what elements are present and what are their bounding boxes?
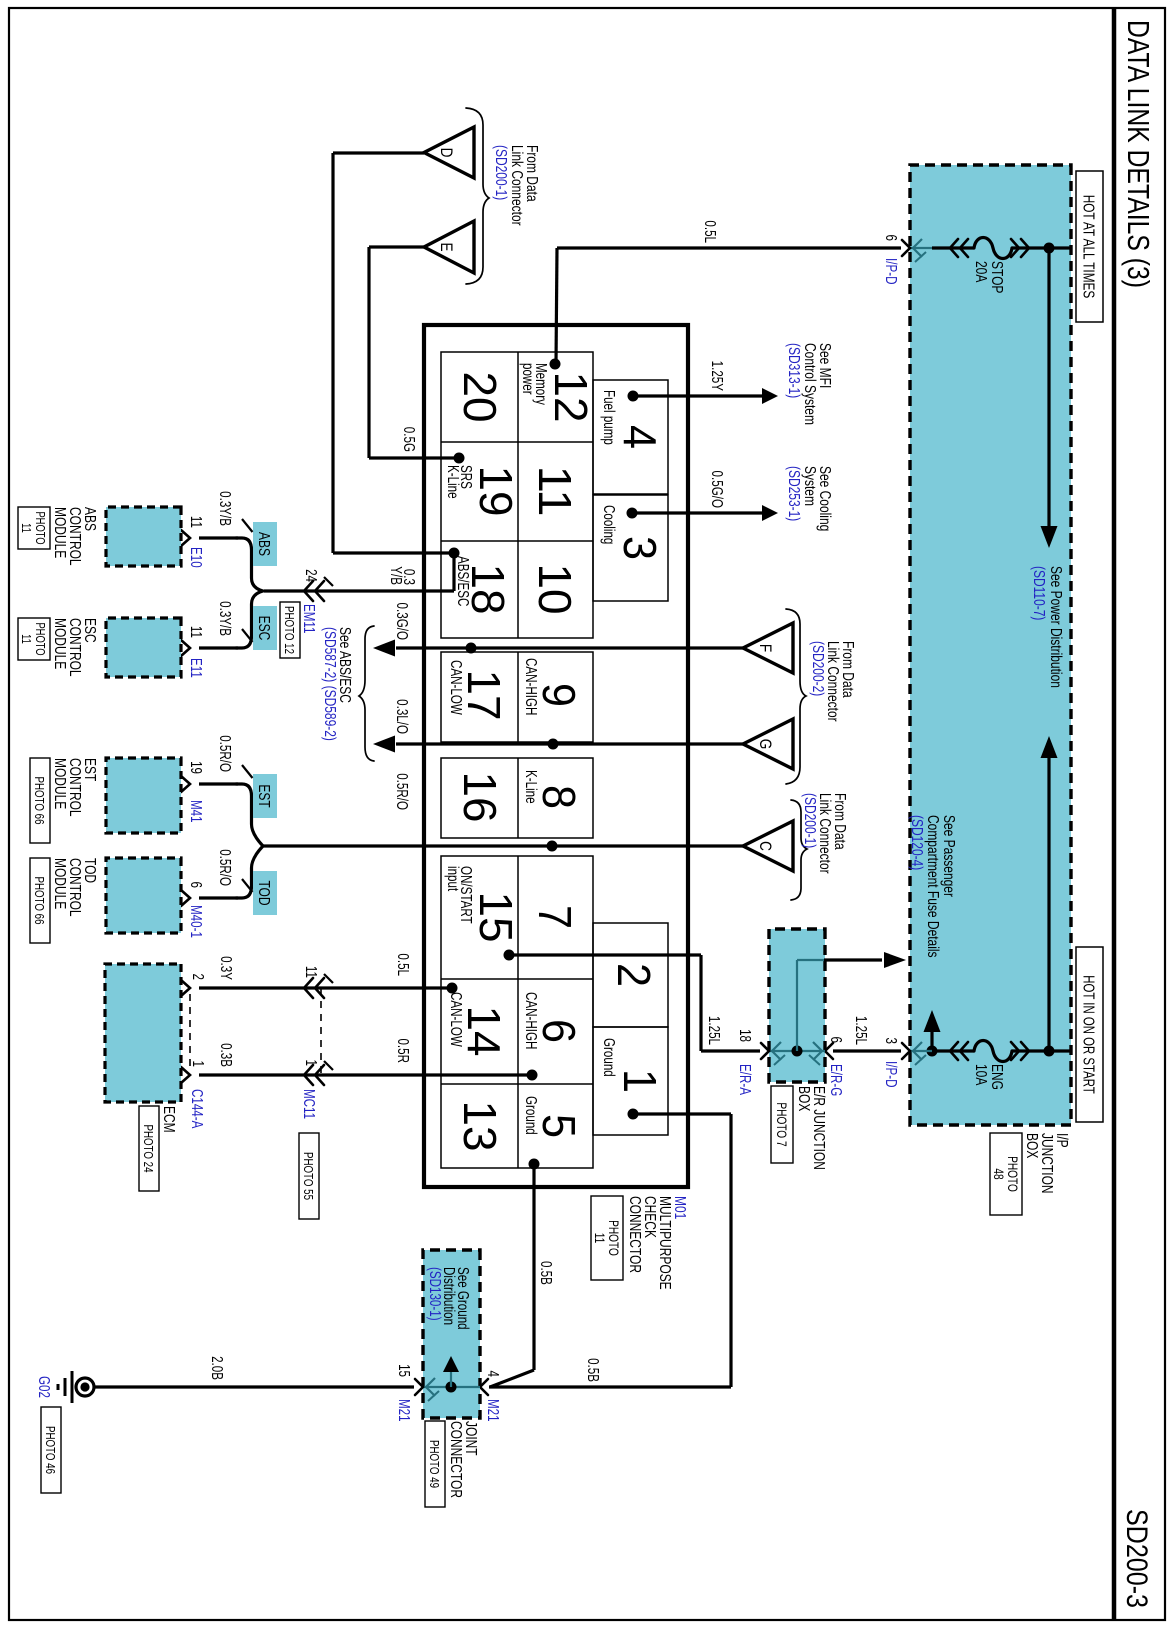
svg-text:E/R-G: E/R-G — [828, 1064, 845, 1096]
svg-text:0.3L/O: 0.3L/O — [394, 699, 411, 734]
brace From Data Link Connector (SD200-2) — [786, 609, 806, 784]
in-line connector EM11 pin 24 — [315, 581, 324, 601]
connector triangle G — [743, 719, 793, 769]
label PHOTO 11 (ABS) — [18, 507, 50, 549]
svg-text:(SD130-1): (SD130-1) — [427, 1267, 444, 1321]
svg-text:CAN-LOW: CAN-LOW — [448, 992, 465, 1047]
node pin 17 — [466, 643, 477, 654]
svg-text:Ground: Ground — [523, 1096, 540, 1135]
svg-text:DATA LINK DETAILS (3): DATA LINK DETAILS (3) — [1121, 20, 1156, 288]
node pin 9 — [548, 739, 559, 750]
wire 1.25Y fuel pump to MFI arrow — [633, 394, 762, 397]
wire hot bus stub to top edge (STOP) — [1049, 246, 1071, 249]
svg-text:See Power Distribution: See Power Distribution — [1048, 566, 1066, 688]
label PHOTO 55 — [299, 1133, 319, 1219]
in-line connector MC11 pin 11 — [315, 978, 324, 998]
svg-text:HOT IN ON OR START: HOT IN ON OR START — [1080, 975, 1098, 1094]
wire 1.25L from E/R-A 18 to pin 15 — [701, 1049, 760, 1052]
svg-text:3: 3 — [883, 1038, 900, 1045]
wire 2.0B to ground G02 — [94, 1385, 414, 1388]
svg-text:Y/B: Y/B — [388, 566, 405, 585]
svg-text:E11: E11 — [188, 658, 205, 678]
svg-text:(SD313-1): (SD313-1) — [786, 343, 804, 398]
node E/R junction — [792, 1046, 803, 1057]
pin 15 chevron M21 — [415, 1379, 423, 1395]
ground G02 — [76, 1378, 94, 1396]
svg-text:11: 11 — [303, 966, 320, 978]
pin 1 C144-A connector — [181, 1067, 190, 1083]
svg-text:G: G — [756, 739, 775, 750]
ABS control module — [106, 507, 181, 566]
node pin 6 — [527, 1070, 538, 1081]
fuse STOP 20A — [1012, 246, 1049, 249]
pin grid block 16/8 — [441, 758, 593, 838]
label PHOTO 66 (EST) — [30, 758, 50, 843]
svg-text:10: 10 — [529, 563, 581, 614]
svg-text:I/P-D: I/P-D — [883, 1061, 900, 1088]
pin 18 chevron E/R-A — [761, 1043, 769, 1059]
svg-text:BOX: BOX — [796, 1086, 814, 1112]
svg-text:K-Line: K-Line — [445, 465, 462, 499]
svg-text:20: 20 — [454, 371, 506, 422]
svg-text:1.25L: 1.25L — [706, 1016, 723, 1045]
pin 19 M41 connector — [181, 776, 190, 792]
svg-text:ABS/ESC: ABS/ESC — [455, 556, 472, 606]
svg-text:0.5L: 0.5L — [702, 220, 719, 243]
svg-text:(SD110-7): (SD110-7) — [1031, 566, 1049, 620]
in-line connector MC11 pin 1 — [315, 1065, 324, 1085]
net label ESC — [253, 606, 277, 650]
node pin 14 — [447, 983, 458, 994]
svg-text:11: 11 — [19, 523, 33, 533]
net label TOD — [253, 871, 277, 915]
wire split to EST and TOD — [236, 784, 263, 898]
svg-text:1: 1 — [303, 1060, 320, 1066]
wire 0.3Y/B to ESC control module — [199, 646, 238, 649]
svg-text:(SD587-2) (SD589-2): (SD587-2) (SD589-2) — [322, 627, 340, 741]
svg-text:2: 2 — [190, 974, 207, 980]
svg-text:0.5B: 0.5B — [585, 1358, 602, 1382]
svg-text:ABS: ABS — [256, 532, 274, 556]
node pin 12 — [550, 359, 561, 370]
svg-text:6: 6 — [533, 1019, 585, 1043]
svg-text:7: 7 — [529, 905, 581, 929]
svg-text:Fuel pump: Fuel pump — [601, 390, 618, 445]
connector triangle E — [424, 221, 474, 273]
wire 0.3G/O triangle F through pin 17 to See ABS/ESC — [396, 646, 743, 649]
svg-text:0.5G: 0.5G — [401, 427, 418, 452]
label PHOTO 46 — [41, 1407, 61, 1493]
svg-text:20A: 20A — [973, 261, 991, 283]
svg-text:0.5B: 0.5B — [538, 1261, 555, 1285]
svg-text:24: 24 — [303, 569, 320, 582]
wire 0.5R/O to EST control module — [199, 782, 238, 785]
svg-text:E: E — [437, 242, 456, 251]
svg-text:15: 15 — [396, 1364, 413, 1377]
svg-text:16: 16 — [454, 771, 506, 822]
title separator rule — [1112, 8, 1117, 1620]
svg-text:(SD253-1): (SD253-1) — [786, 466, 804, 521]
svg-text:6: 6 — [828, 1037, 845, 1044]
wire triangle E to pin 19 (0.5G) — [369, 245, 424, 248]
label PHOTO 7 — [771, 1086, 793, 1163]
node M21 junction — [446, 1382, 457, 1393]
svg-text:MODULE: MODULE — [52, 618, 70, 669]
svg-text:11: 11 — [188, 516, 205, 528]
svg-text:14: 14 — [458, 1005, 510, 1056]
net label EST — [253, 774, 277, 818]
svg-text:1: 1 — [614, 1069, 666, 1093]
svg-text:11: 11 — [19, 634, 33, 644]
svg-text:4: 4 — [485, 1371, 502, 1378]
pin 6 exit chevron I/P-D — [902, 240, 910, 256]
EST control module — [106, 758, 181, 833]
wire triangle D to pin 18 — [333, 151, 424, 154]
pin 3 exit chevron I/P-D — [902, 1043, 910, 1059]
pin 4 chevron M21 — [480, 1379, 488, 1395]
brace See ABS/ESC — [359, 626, 374, 761]
svg-text:CONNECTOR: CONNECTOR — [627, 1196, 645, 1273]
pin cell 3 — [593, 495, 668, 601]
svg-text:0.5R/O: 0.5R/O — [394, 773, 411, 810]
svg-text:6: 6 — [188, 882, 205, 889]
brace (C) — [791, 800, 807, 900]
node pin 19 — [454, 453, 465, 464]
svg-text:MODULE: MODULE — [52, 858, 70, 909]
connector triangle D — [424, 127, 474, 178]
svg-text:MC11: MC11 — [301, 1089, 318, 1119]
svg-text:HOT AT ALL TIMES: HOT AT ALL TIMES — [1080, 195, 1098, 299]
label PHOTO 11 (M01) — [591, 1196, 623, 1280]
svg-text:PHOTO 66: PHOTO 66 — [32, 776, 46, 824]
svg-text:power: power — [520, 363, 537, 395]
svg-text:0.5R/O: 0.5R/O — [217, 849, 234, 886]
svg-text:48: 48 — [991, 1168, 1007, 1180]
svg-text:(SD200-2): (SD200-2) — [810, 641, 828, 696]
node pin 18 — [449, 548, 460, 559]
wire 0.5R/O to TOD control module — [199, 896, 238, 899]
svg-text:3: 3 — [614, 536, 666, 560]
pin 11 E11 connector — [181, 640, 190, 656]
wire branch to passenger fuse details arrow — [930, 1032, 933, 1051]
wire 0.3Y/B to ABS control module — [199, 536, 238, 539]
svg-text:19: 19 — [470, 465, 522, 516]
ESC control module — [106, 618, 181, 677]
svg-text:0.3Y/B: 0.3Y/B — [217, 491, 234, 526]
svg-text:input: input — [445, 866, 462, 891]
wire 0.5R pin 6 CAN-HIGH to MC11 — [199, 1073, 532, 1076]
wire 0.3L/O triangle G through pin 9 — [396, 742, 744, 745]
svg-text:1.25Y: 1.25Y — [709, 361, 726, 391]
arrow see ground distribution — [450, 1362, 452, 1387]
svg-text:PHOTO 24: PHOTO 24 — [141, 1124, 155, 1173]
svg-text:MODULE: MODULE — [52, 758, 70, 809]
svg-text:M21: M21 — [396, 1399, 413, 1422]
wire through M21 — [423, 1386, 480, 1388]
svg-text:2: 2 — [608, 963, 660, 987]
svg-text:(SD200-1): (SD200-1) — [493, 145, 511, 200]
svg-text:1: 1 — [190, 1061, 207, 1067]
svg-text:0.3Y/B: 0.3Y/B — [217, 601, 234, 636]
svg-text:13: 13 — [454, 1100, 506, 1151]
svg-text:0.3B: 0.3B — [218, 1043, 235, 1067]
label PHOTO 24 — [139, 1106, 159, 1191]
pin cell 4 — [593, 380, 668, 494]
wire bus from ENG fuse junction — [1047, 756, 1050, 1051]
svg-text:8: 8 — [533, 785, 585, 809]
label PHOTO 66 (TOD) — [30, 858, 50, 943]
svg-text:PHOTO: PHOTO — [33, 622, 47, 655]
svg-text:CAN-HIGH: CAN-HIGH — [523, 992, 540, 1049]
node junction ENG fuse — [1044, 1046, 1055, 1057]
wire through E/R junction box — [769, 1050, 825, 1052]
svg-text:M21: M21 — [485, 1399, 502, 1422]
svg-text:G02: G02 — [36, 1376, 53, 1398]
pin 6 chevron E/R-G — [825, 1043, 833, 1059]
I/P junction box (shaded) — [910, 165, 1071, 1125]
node junction ENG branch — [927, 1046, 938, 1057]
svg-text:11: 11 — [529, 465, 581, 516]
svg-text:11: 11 — [188, 626, 205, 638]
svg-text:BOX: BOX — [1024, 1133, 1042, 1159]
svg-text:5: 5 — [533, 1114, 585, 1138]
wire 0.5G/O cooling to arrow — [632, 511, 762, 514]
ECM module — [105, 964, 181, 1102]
connector triangle C — [743, 821, 793, 871]
wire 0.5B pin 5 ground to M21 pin 4 — [532, 1164, 535, 1370]
wire 1.25L from I/P-D 3 to E/R-G 6 — [833, 1049, 901, 1052]
svg-text:10A: 10A — [973, 1064, 991, 1086]
svg-text:ESC: ESC — [256, 616, 274, 641]
svg-text:15: 15 — [470, 891, 522, 942]
svg-text:1.25L: 1.25L — [853, 1016, 870, 1045]
joint connector M21 (shaded) — [423, 1250, 480, 1418]
TOD control module — [106, 858, 181, 933]
svg-text:19: 19 — [188, 761, 205, 774]
wire 0.5R/O triangle C through pin 8 to EST TOD split — [262, 844, 744, 847]
svg-text:PHOTO 12: PHOTO 12 — [282, 606, 296, 654]
svg-text:F: F — [756, 644, 775, 652]
node pin 1 — [628, 1109, 639, 1120]
node junction STOP fuse — [1044, 243, 1055, 254]
pin 2 ECM connector — [181, 980, 190, 996]
pin grid block 20-18/12-10 — [441, 352, 593, 638]
E/R junction box (shaded) — [769, 929, 825, 1082]
connector triangle F — [743, 623, 793, 673]
wire 0.5L pin 14 CAN-LOW to MC11 — [199, 986, 452, 989]
wire bus to power distribution arrow — [1047, 248, 1050, 528]
svg-text:I/P-D: I/P-D — [883, 258, 900, 285]
wire hot bus stub to top edge (ENG) — [1049, 1049, 1071, 1052]
pin grid block 17/9 — [441, 652, 593, 742]
svg-text:E10: E10 — [188, 547, 205, 568]
brace From Data Link Connector (SD200-1) — [466, 108, 489, 284]
node pin 15 — [504, 950, 515, 961]
label HOT IN ON OR START — [1076, 947, 1103, 1122]
svg-text:(SD120-4): (SD120-4) — [909, 815, 927, 870]
svg-text:EST: EST — [256, 784, 274, 808]
svg-text:SD200-3: SD200-3 — [1120, 1509, 1153, 1608]
label HOT AT ALL TIMES — [1076, 171, 1103, 322]
svg-text:C144-A: C144-A — [189, 1089, 206, 1129]
fuse ENG 10A — [1012, 1049, 1049, 1052]
svg-text:PHOTO 46: PHOTO 46 — [43, 1426, 57, 1474]
label PHOTO 49 — [425, 1421, 445, 1507]
svg-text:4: 4 — [614, 425, 666, 449]
svg-text:K-Line: K-Line — [523, 770, 540, 804]
pin cell 1 — [593, 1027, 668, 1135]
svg-text:0.5R: 0.5R — [395, 1038, 412, 1063]
pin cell 2 — [593, 923, 668, 1027]
svg-text:D: D — [437, 148, 456, 158]
svg-text:PHOTO 66: PHOTO 66 — [32, 876, 46, 924]
svg-text:0.5L: 0.5L — [395, 953, 412, 976]
svg-text:Ground: Ground — [601, 1038, 618, 1077]
node pin 8 — [547, 841, 558, 852]
svg-text:11: 11 — [592, 1233, 608, 1244]
svg-text:6: 6 — [883, 235, 900, 242]
svg-text:2.0B: 2.0B — [209, 1356, 226, 1380]
pin 11 E10 connector — [181, 530, 190, 546]
svg-text:(SD200-1): (SD200-1) — [802, 793, 820, 848]
label PHOTO 11 (ESC) — [18, 618, 50, 660]
node pin 4 — [628, 391, 639, 402]
svg-text:17: 17 — [458, 669, 510, 720]
svg-text:EM11: EM11 — [301, 604, 318, 633]
wire E/R branch to I/P junction box — [796, 960, 798, 1051]
svg-text:Cooling: Cooling — [601, 505, 618, 544]
svg-text:CONNECTOR: CONNECTOR — [448, 1421, 466, 1498]
connector M01 outer box — [424, 325, 688, 1187]
svg-text:C: C — [756, 841, 775, 851]
svg-text:CAN-HIGH: CAN-HIGH — [523, 658, 540, 715]
svg-text:TOD: TOD — [256, 880, 274, 905]
wire 0.5L from I/P-D 6 to pin 12 memory power — [557, 246, 901, 249]
label PHOTO 48 — [990, 1133, 1022, 1215]
svg-text:PHOTO 49: PHOTO 49 — [427, 1440, 441, 1488]
svg-text:PHOTO 55: PHOTO 55 — [301, 1152, 315, 1200]
svg-text:0.5G/O: 0.5G/O — [709, 471, 726, 508]
wire split to ABS and ESC — [236, 538, 263, 648]
svg-text:E/R-A: E/R-A — [737, 1064, 754, 1096]
svg-text:0.5R/O: 0.5R/O — [217, 735, 234, 772]
svg-text:9: 9 — [533, 683, 585, 707]
svg-text:0.3G/O: 0.3G/O — [394, 603, 411, 640]
wire 0.3Y/B pin 18 hook to EM11 — [452, 553, 455, 591]
svg-text:0.3Y: 0.3Y — [218, 956, 235, 980]
node pin 5 — [529, 1159, 540, 1170]
node pin 3 — [627, 508, 638, 519]
svg-text:CAN-LOW: CAN-LOW — [448, 660, 465, 715]
svg-text:PHOTO: PHOTO — [33, 511, 47, 544]
net label ABS — [253, 522, 277, 566]
svg-text:M40-1: M40-1 — [188, 905, 205, 938]
svg-text:ECM: ECM — [161, 1106, 179, 1133]
wire 0.5B pin 1 ground — [633, 1112, 731, 1115]
svg-text:PHOTO 7: PHOTO 7 — [774, 1102, 790, 1147]
svg-text:MODULE: MODULE — [52, 507, 70, 558]
pin grid block 15-13/7-5 — [441, 856, 593, 1168]
svg-text:12: 12 — [545, 371, 597, 422]
connector link dashed C144-A — [189, 994, 191, 1069]
connector link dashed MC11 — [320, 988, 322, 1075]
pin 6 M40-1 connector — [181, 890, 190, 906]
svg-text:M41: M41 — [188, 800, 205, 823]
svg-text:18: 18 — [737, 1029, 754, 1042]
label PHOTO 12 — [280, 602, 300, 658]
